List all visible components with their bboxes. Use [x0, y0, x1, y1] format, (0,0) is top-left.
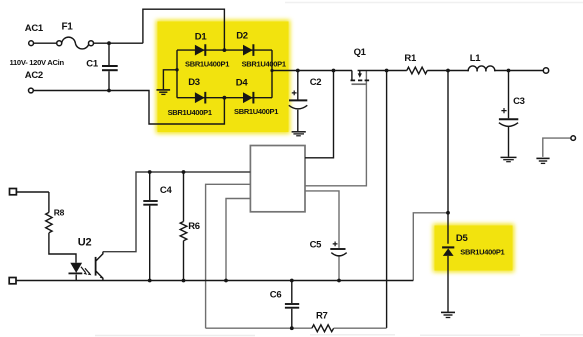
svg-text:Q1: Q1: [354, 47, 367, 58]
svg-text:AC2: AC2: [25, 70, 43, 81]
svg-text:R1: R1: [404, 53, 417, 64]
svg-text:SBR1U400P1: SBR1U400P1: [168, 108, 212, 117]
svg-text:U2: U2: [78, 236, 92, 248]
svg-text:R8: R8: [54, 208, 65, 218]
svg-text:C3: C3: [513, 96, 525, 107]
svg-text:SBR1U400P1: SBR1U400P1: [234, 107, 278, 116]
svg-text:D2: D2: [236, 31, 248, 42]
svg-text:C5: C5: [310, 240, 323, 251]
svg-text:110V- 120V ACin: 110V- 120V ACin: [10, 58, 65, 67]
svg-text:C2: C2: [310, 77, 322, 88]
svg-text:L1: L1: [470, 53, 482, 64]
svg-text:SBR1U400P1: SBR1U400P1: [460, 247, 504, 256]
svg-text:F1: F1: [62, 21, 74, 32]
svg-text:D3: D3: [188, 77, 200, 88]
svg-text:C6: C6: [270, 289, 282, 300]
svg-text:D5: D5: [456, 233, 469, 244]
svg-text:D4: D4: [236, 77, 249, 88]
svg-text:C4: C4: [160, 185, 173, 196]
svg-text:SBR1U400P1: SBR1U400P1: [185, 59, 229, 68]
svg-text:R7: R7: [316, 311, 328, 322]
svg-text:C1: C1: [86, 58, 99, 69]
svg-text:AC1: AC1: [25, 23, 44, 34]
svg-text:R6: R6: [188, 221, 200, 232]
svg-text:D1: D1: [195, 31, 208, 42]
svg-text:SBR1U400P1: SBR1U400P1: [242, 59, 286, 68]
